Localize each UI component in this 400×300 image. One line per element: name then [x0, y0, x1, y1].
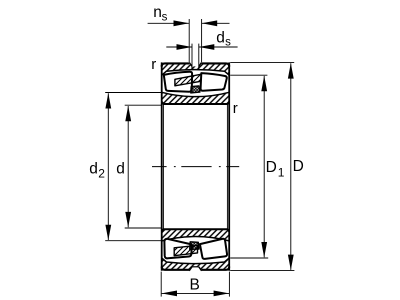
ns extension lines — [188, 19, 190, 62]
d2 dimension line — [107, 93, 109, 240]
lubrication groove notch (top) — [189, 62, 201, 66]
right face chamfer line — [226, 105, 228, 229]
roller lower-right — [200, 239, 227, 259]
roller lower-left — [164, 239, 191, 259]
ds extension lines — [191, 44, 193, 67]
D extension lines — [230, 62, 294, 64]
inner ring hatching (bottom) — [162, 229, 230, 241]
svg-text:D: D — [266, 159, 277, 176]
cage bar lower — [174, 245, 197, 255]
roller upper-left — [164, 72, 192, 92]
D1 extension lines — [230, 74, 267, 76]
cage bar upper — [175, 74, 202, 86]
inner ring bore edge (top) — [162, 102, 230, 104]
outer ring OD edge (top) — [162, 63, 230, 66]
svg-text:d: d — [116, 161, 125, 178]
d dimension line — [127, 106, 129, 227]
svg-text:1: 1 — [278, 165, 285, 179]
groove walls (top) — [189, 62, 201, 66]
outer ring OD edge (bottom) — [162, 267, 230, 270]
groove bottom (bottom section) — [192, 266, 199, 268]
guide ring upper — [191, 86, 200, 93]
ns dimension line — [148, 22, 189, 24]
left face chamfer line — [162, 105, 164, 229]
guide ring lower — [190, 242, 199, 250]
roller upper-right — [201, 73, 227, 91]
inner raceway (bottom) — [162, 237, 230, 241]
svg-text:n: n — [153, 4, 162, 21]
svg-text:r: r — [233, 100, 238, 117]
D1 dimension line — [263, 76, 265, 257]
inner raceway (top) — [162, 92, 230, 96]
inner ring hatching (top) — [162, 92, 230, 104]
svg-text:d: d — [216, 30, 225, 47]
svg-text:D: D — [293, 158, 304, 175]
outer raceway (top) — [162, 70, 230, 76]
right face — [228, 62, 230, 270]
svg-text:B: B — [190, 276, 200, 293]
svg-text:r: r — [151, 56, 156, 73]
left face — [161, 62, 163, 270]
lubrication groove notch (bottom) — [189, 267, 201, 271]
d2 extension lines — [105, 92, 161, 94]
lubrication hole — [191, 66, 193, 70]
svg-text:2: 2 — [98, 167, 105, 181]
d extension lines — [125, 104, 161, 106]
ds dimension line — [166, 46, 192, 48]
outer raceway (bottom) — [162, 258, 230, 264]
outer ring hatching (top) — [162, 63, 230, 75]
outer ring hatching (bottom) — [162, 258, 230, 270]
svg-text:d: d — [89, 161, 98, 178]
svg-text:s: s — [225, 36, 231, 48]
B extension lines — [160, 272, 162, 297]
groove walls (bottom) — [189, 267, 201, 271]
D dimension line — [290, 63, 292, 270]
centerline (bearing axis) — [152, 166, 239, 168]
B dimension line — [162, 292, 229, 294]
inner ring bore edge (bottom) — [162, 229, 230, 231]
svg-text:s: s — [162, 12, 168, 24]
